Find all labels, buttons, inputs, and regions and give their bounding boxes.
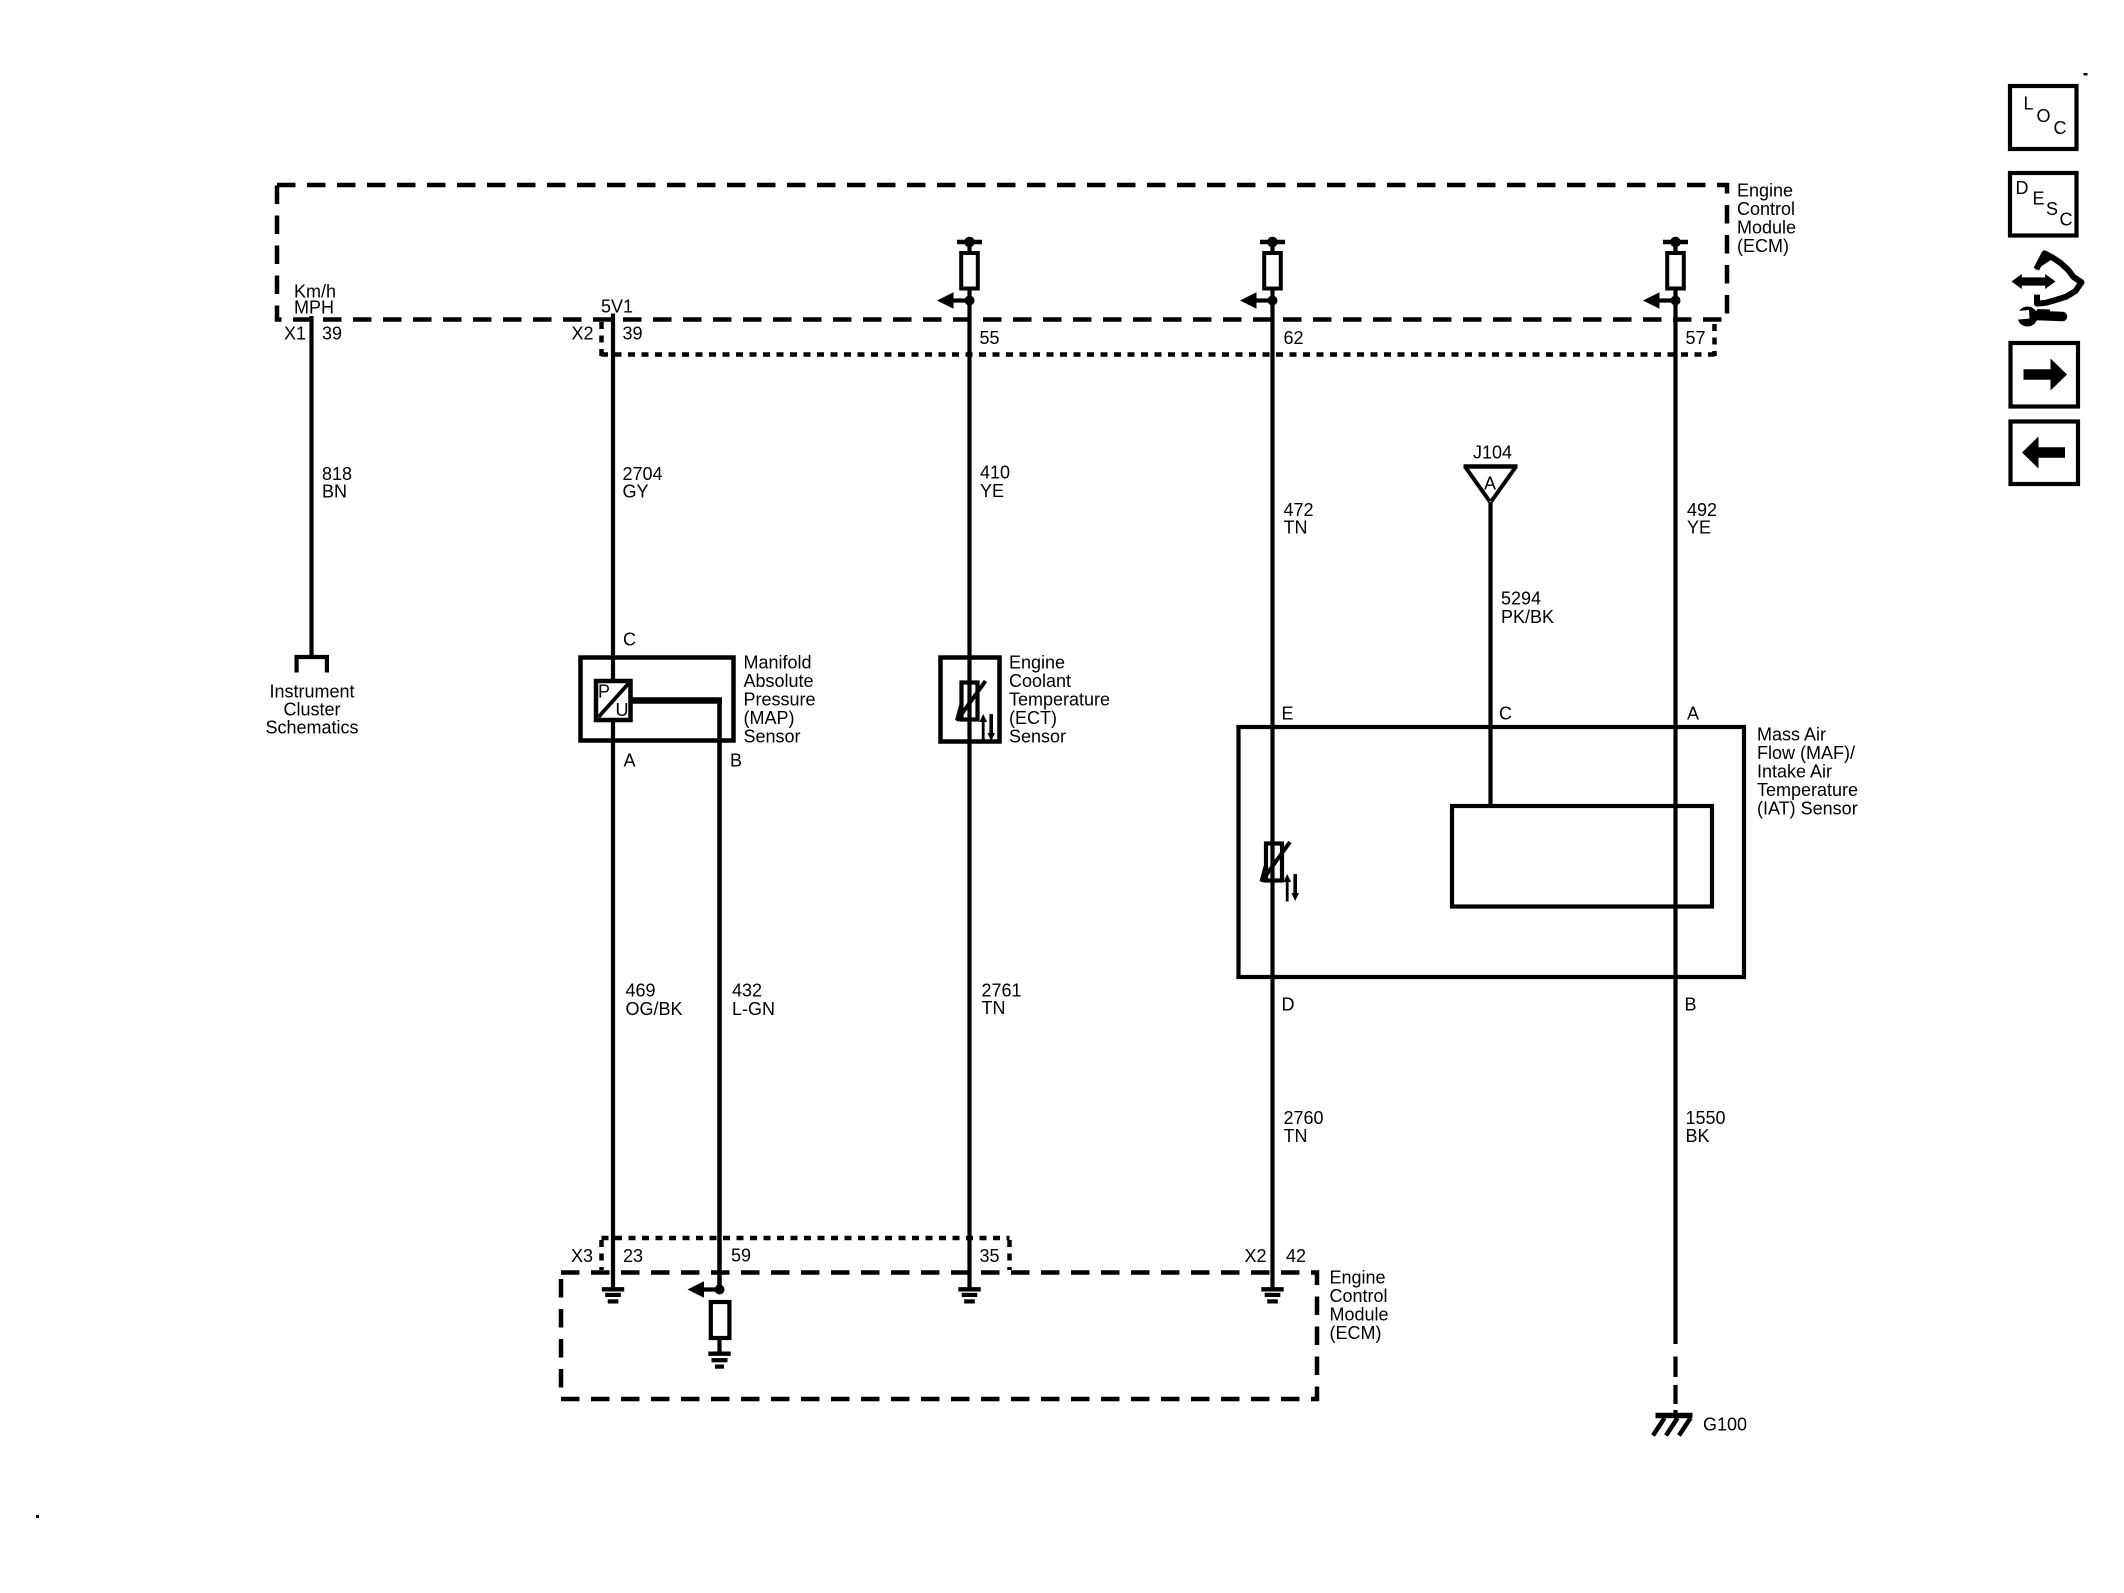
- svg-text:59: 59: [731, 1246, 751, 1266]
- next-page icon box (right arrow): [2011, 343, 2079, 407]
- resistor below pin 59: [711, 1302, 730, 1338]
- svg-text:B: B: [730, 751, 742, 771]
- svg-text:YE: YE: [980, 481, 1004, 501]
- label 410 YE: [980, 463, 1010, 502]
- arrow at pin 59: [688, 1281, 720, 1298]
- svg-text:BN: BN: [322, 482, 347, 502]
- svg-text:L: L: [2024, 94, 2034, 114]
- X2 rail left tick: [599, 322, 604, 356]
- IAT up/down arrows: [1283, 874, 1299, 902]
- ground at pin 35: [958, 1289, 980, 1301]
- label 469 OG/BK: [626, 981, 683, 1020]
- svg-text:Temperature: Temperature: [1009, 690, 1110, 710]
- svg-text:Temperature: Temperature: [1757, 780, 1858, 800]
- resistor in ECM pin 57: [1663, 237, 1688, 289]
- connector label X1 39: [284, 324, 342, 344]
- wire 472 TN (pin 62 down through MAF/IAT sensor): [1270, 289, 1274, 1288]
- wire 410 YE (pin 55 down through ECT sensor): [967, 289, 971, 1288]
- label Engine Control Module (ECM) top right: [1737, 181, 1796, 257]
- svg-text:YE: YE: [1687, 518, 1711, 538]
- connector-view icon wrench: [2013, 307, 2063, 327]
- svg-text:X2: X2: [572, 324, 594, 344]
- MAF inner module rectangle: [1452, 806, 1712, 907]
- wire 432 L-GN (MAP B down to pin 59): [717, 701, 722, 1290]
- svg-text:G100: G100: [1703, 1415, 1747, 1435]
- svg-text:E: E: [2033, 189, 2045, 209]
- svg-text:Control: Control: [1330, 1286, 1388, 1306]
- X2 rail right tick: [1712, 324, 1717, 356]
- svg-text:57: 57: [1686, 328, 1706, 348]
- wire 492 YE (pin 57 down through MAF/IAT sensor): [1673, 289, 1677, 1345]
- ground at pin 42: [1261, 1289, 1283, 1301]
- ECT thermistor: [957, 681, 986, 721]
- junction dot pin 55: [965, 296, 975, 306]
- svg-text:A: A: [1484, 474, 1496, 494]
- svg-text:C: C: [1499, 704, 1512, 724]
- svg-text:Absolute: Absolute: [744, 671, 814, 691]
- connector fork to instrument cluster: [295, 655, 330, 673]
- svg-text:2760: 2760: [1284, 1108, 1324, 1128]
- svg-text:Cluster: Cluster: [283, 700, 340, 720]
- svg-text:C: C: [2054, 118, 2067, 138]
- svg-text:Sensor: Sensor: [1009, 727, 1066, 747]
- connector label X2 39: [572, 324, 643, 344]
- label 1550 BK: [1686, 1108, 1726, 1146]
- wire 818 BN (X1 to instrument cluster): [309, 316, 313, 657]
- arrow at pin 55: [937, 292, 970, 309]
- arrow at pin 57: [1643, 292, 1676, 309]
- junction dot pin 59: [715, 1285, 725, 1295]
- svg-text:Engine: Engine: [1737, 181, 1793, 201]
- svg-text:X3: X3: [571, 1246, 593, 1266]
- svg-text:D: D: [2016, 178, 2029, 198]
- svg-text:55: 55: [980, 328, 1000, 348]
- svg-text:Flow (MAF)/: Flow (MAF)/: [1757, 743, 1855, 763]
- svg-text:E: E: [1282, 704, 1294, 724]
- MAF/IAT sensor box: [1239, 727, 1745, 977]
- MAP sensor box: [581, 658, 734, 741]
- connector label X3 23: [571, 1246, 643, 1266]
- resistor in ECM pin 62: [1260, 237, 1285, 289]
- chassis ground G100: [1653, 1416, 1693, 1436]
- label 432 L-GN: [732, 981, 775, 1020]
- splice J104 triangle: [1464, 467, 1518, 502]
- connector-view icon part outline: [2035, 252, 2081, 304]
- svg-text:D: D: [1282, 995, 1295, 1015]
- svg-text:S: S: [2046, 199, 2058, 219]
- svg-text:OG/BK: OG/BK: [626, 999, 683, 1019]
- connector-view icon double arrow: [2012, 274, 2056, 289]
- prev-page icon box (left arrow): [2011, 422, 2079, 485]
- svg-text:Sensor: Sensor: [744, 727, 801, 747]
- svg-text:Mass Air: Mass Air: [1757, 725, 1826, 745]
- label Mass Air Flow (MAF)/ Intake Air Temperature (IAT) Sensor: [1757, 725, 1858, 819]
- label Engine Coolant Temperature (ECT) Sensor: [1009, 653, 1110, 747]
- svg-text:(ECT): (ECT): [1009, 708, 1057, 728]
- ground below pin 59: [708, 1354, 730, 1367]
- svg-text:39: 39: [322, 324, 342, 344]
- svg-text:C: C: [623, 630, 636, 650]
- arrow at pin 62: [1240, 292, 1273, 309]
- svg-text:MPH: MPH: [294, 298, 334, 318]
- svg-text:X1: X1: [284, 324, 306, 344]
- label 2760 TN: [1284, 1108, 1324, 1146]
- label 5294 PK/BK: [1501, 589, 1554, 628]
- label 818 BN: [322, 464, 352, 502]
- connector label X2 42: [1245, 1246, 1307, 1266]
- svg-text:B: B: [1685, 995, 1697, 1015]
- label Instrument Cluster Schematics: [265, 682, 358, 738]
- svg-text:C: C: [2060, 210, 2073, 230]
- svg-text:U: U: [616, 700, 629, 720]
- label 492 YE: [1687, 500, 1717, 538]
- junction dot pin 62: [1268, 296, 1278, 306]
- svg-text:469: 469: [626, 981, 656, 1001]
- svg-text:35: 35: [980, 1246, 1000, 1266]
- label Engine Control Module (ECM) bottom: [1330, 1268, 1389, 1344]
- svg-text:TN: TN: [1284, 518, 1308, 538]
- label 2704 GY: [623, 464, 663, 502]
- svg-text:J104: J104: [1473, 443, 1512, 463]
- svg-text:62: 62: [1284, 328, 1304, 348]
- svg-text:5V1: 5V1: [601, 297, 633, 317]
- svg-text:PK/BK: PK/BK: [1501, 607, 1554, 627]
- stray mark bottom left: [36, 1515, 39, 1518]
- svg-text:(ECM): (ECM): [1737, 236, 1789, 256]
- svg-text:O: O: [2037, 106, 2051, 126]
- label 472 TN: [1284, 500, 1314, 538]
- stray mark top right: [2084, 73, 2088, 76]
- bottom rail right tick: [1007, 1240, 1012, 1270]
- svg-text:Engine: Engine: [1009, 653, 1065, 673]
- svg-text:Pressure: Pressure: [744, 690, 816, 710]
- svg-text:Schematics: Schematics: [265, 718, 358, 738]
- svg-text:Control: Control: [1737, 199, 1795, 219]
- svg-text:432: 432: [732, 981, 762, 1001]
- wire 5294 PK/BK (J104 to MAF C): [1488, 502, 1492, 806]
- IAT thermistor: [1262, 842, 1291, 882]
- svg-text:Module: Module: [1737, 218, 1796, 238]
- svg-text:A: A: [1687, 704, 1699, 724]
- svg-text:L-GN: L-GN: [732, 999, 775, 1019]
- bottom dotted rail X3/X2: [602, 1236, 1010, 1241]
- DESC icon box: [2010, 173, 2077, 236]
- svg-text:GY: GY: [623, 482, 649, 502]
- node X2 dotted rail top: [601, 352, 1715, 357]
- svg-text:P: P: [598, 682, 610, 702]
- svg-text:42: 42: [1286, 1246, 1306, 1266]
- ground at pin 23: [602, 1289, 624, 1301]
- label Km/h MPH: [294, 282, 336, 318]
- label Manifold Absolute Pressure (MAP) Sensor: [744, 653, 816, 747]
- svg-text:(MAP): (MAP): [744, 708, 795, 728]
- svg-text:Module: Module: [1330, 1305, 1389, 1325]
- svg-text:X2: X2: [1245, 1246, 1267, 1266]
- thick link P/U square to terminal B: [631, 697, 723, 704]
- dashed wire to G100: [1673, 1357, 1677, 1417]
- svg-text:Instrument: Instrument: [269, 682, 354, 702]
- svg-text:(IAT) Sensor: (IAT) Sensor: [1757, 799, 1858, 819]
- svg-text:23: 23: [623, 1246, 643, 1266]
- ECT up/down arrows: [979, 714, 995, 742]
- svg-text:BK: BK: [1686, 1126, 1710, 1146]
- svg-text:Engine: Engine: [1330, 1268, 1386, 1288]
- wire 2704 GY (X2 pin 39 down through MAP sensor): [611, 314, 615, 1288]
- resistor in ECM pin 55: [957, 237, 982, 289]
- ECM bottom dashed box: [561, 1273, 1317, 1400]
- svg-text:1550: 1550: [1686, 1108, 1726, 1128]
- svg-text:Manifold: Manifold: [744, 653, 812, 673]
- wire resistor 59 to ground: [717, 1338, 721, 1352]
- svg-text:Coolant: Coolant: [1009, 671, 1071, 691]
- svg-text:5294: 5294: [1501, 589, 1541, 609]
- svg-text:TN: TN: [1284, 1126, 1308, 1146]
- svg-text:39: 39: [623, 324, 643, 344]
- svg-text:410: 410: [980, 463, 1010, 483]
- svg-text:(ECM): (ECM): [1330, 1323, 1382, 1343]
- LOC icon box: [2010, 86, 2077, 149]
- MAP P/U transducer square: [596, 681, 631, 720]
- ECM top dashed box: [277, 185, 1727, 320]
- junction dot pin 57: [1671, 296, 1681, 306]
- svg-text:TN: TN: [982, 998, 1006, 1018]
- bottom rail left tick: [599, 1240, 604, 1270]
- svg-text:A: A: [624, 751, 636, 771]
- ECT sensor box: [941, 658, 1000, 742]
- svg-text:Intake Air: Intake Air: [1757, 762, 1832, 782]
- label 2761 TN: [982, 981, 1022, 1019]
